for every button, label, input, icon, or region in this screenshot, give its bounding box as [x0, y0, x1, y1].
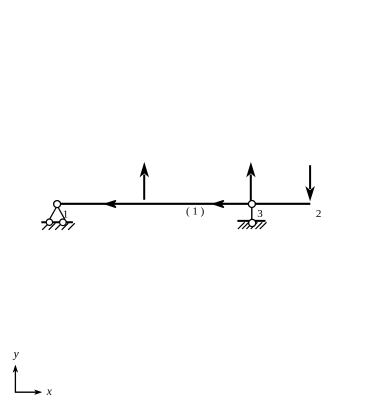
node 1 support rollers	[46, 219, 66, 226]
upward force arrow on member	[141, 164, 148, 200]
node 3 ground hatching	[237, 221, 266, 229]
node 3 label	[257, 208, 263, 220]
node 3 support link	[251, 207, 253, 221]
svg-text:3: 3	[257, 208, 263, 220]
svg-text:y: y	[13, 349, 20, 361]
node 1 ground hatching	[41, 222, 75, 230]
downward force arrow at node 2	[306, 165, 314, 200]
arrowhead on member pointing left (near node 1)	[105, 201, 116, 208]
axis label x	[46, 386, 53, 398]
axis label y	[13, 349, 20, 361]
member label ( 1 )	[186, 205, 205, 217]
node 1 label	[63, 209, 69, 221]
svg-text:x: x	[46, 386, 53, 398]
node 1 hinge circle	[54, 201, 61, 208]
coordinate axes	[13, 365, 41, 394]
svg-text:2: 2	[316, 208, 322, 220]
arrowhead on member pointing left (near node 3)	[213, 201, 224, 208]
member (1) beam from node 1 to node 2	[61, 203, 311, 205]
node 1 support triangle	[50, 207, 65, 219]
node 2 label	[316, 208, 322, 220]
upward force arrow at node 3	[247, 164, 254, 201]
node 3 support lower hinge circle	[249, 219, 256, 226]
svg-text:( 1 ): ( 1 )	[186, 205, 205, 217]
node 3 hinge circle on member	[248, 201, 255, 208]
svg-text:1: 1	[63, 209, 69, 221]
